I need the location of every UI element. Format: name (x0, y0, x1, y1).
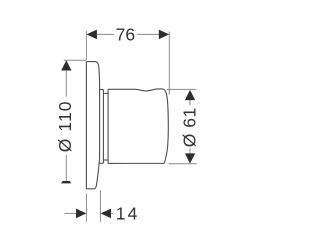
dim Ø110: top arrow (61, 60, 71, 70)
svg-text:Ø 61: Ø 61 (179, 107, 199, 147)
dim 14: left extension line (85, 194, 87, 222)
svg-text:14: 14 (116, 203, 140, 223)
dim 76: dimension line left segment (96, 33, 114, 35)
dim Ø61: top arrow (185, 90, 195, 100)
dim 14: right leader line (110, 212, 113, 214)
sleeve front face (102, 90, 104, 164)
dim Ø110: dimension line lower segment (65, 155, 67, 181)
dim Ø61: top extension line (167, 88, 196, 90)
dim 76: left extension line (85, 31, 87, 60)
dim 14: right arrow (pointing left) (101, 209, 111, 219)
dim 76: right arrow (159, 30, 169, 40)
svg-text:76: 76 (116, 24, 135, 44)
sleeve top edge (100, 89, 104, 91)
dim Ø61: dimension line upper segment (189, 100, 191, 105)
dim Ø61: dimension line lower segment (189, 149, 191, 155)
groove bottom crossbar (103, 159, 108, 161)
dim 14: left arrow (pointing right) (76, 209, 86, 219)
svg-text:Ø 110: Ø 110 (55, 100, 75, 152)
dim Ø110: dimension line upper segment (65, 70, 67, 97)
groove top crossbar (103, 92, 108, 94)
escutcheon plate (side profile) (86, 62, 99, 189)
sleeve bottom edge (100, 162, 104, 164)
dim Ø61: bottom arrow (185, 153, 195, 163)
dim 14: right extension line (99, 190, 101, 222)
dim Ø110: bottom tick terminator (61, 181, 71, 183)
handle knob outline (108, 89, 168, 163)
dim 14: left leader line (65, 212, 77, 214)
dim 76: dimension line right segment (137, 33, 161, 35)
dim Ø110: top extension line (64, 59, 86, 61)
dim 76: right extension line (168, 32, 170, 95)
dim 76: left arrow (87, 30, 97, 40)
dim Ø61: bottom extension line (169, 163, 197, 165)
